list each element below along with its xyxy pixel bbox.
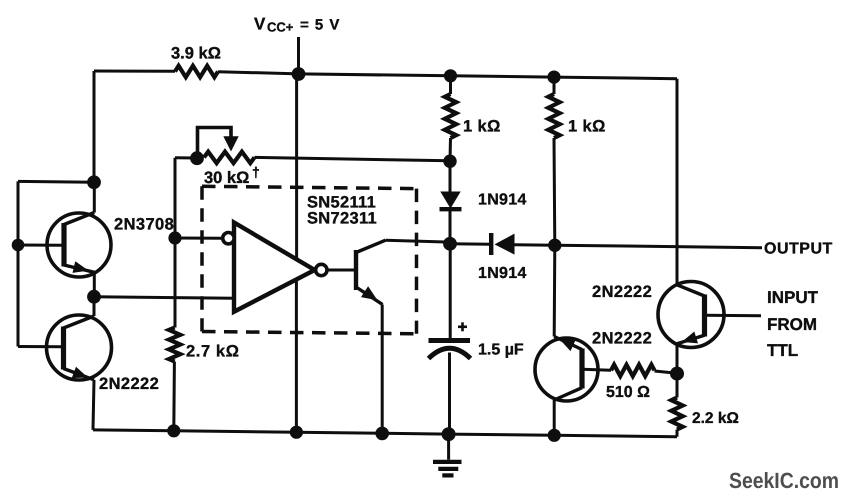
node Q5 emitter ground dot [375, 427, 389, 441]
wire inverting input line [175, 237, 223, 240]
svg-text:†: † [252, 164, 260, 180]
wire top rail segment C [299, 74, 451, 76]
svg-text:3.9 kΩ: 3.9 kΩ [171, 45, 221, 63]
wire Q5 emitter vertical [381, 305, 384, 434]
capacitor C1 curved plate [429, 348, 471, 358]
transistor Q2 emitter diagonal [64, 369, 95, 380]
wire ground rail seg C [296, 432, 382, 433]
node R3 ground dot [167, 424, 180, 437]
ground symbol bar 1 [433, 460, 462, 464]
wire R6 to junction [655, 371, 678, 373]
wire 2.2k bottom lead [676, 430, 679, 437]
transistor Q1 emitter arrow [73, 261, 89, 273]
transistor Q2 emitter arrow [72, 367, 88, 378]
node bracket base dot [12, 239, 25, 252]
wire Q1 emitter vertical [93, 272, 96, 297]
transistor Q2 collector diagonal [64, 316, 95, 328]
transistor Q3 emitter diagonal [554, 337, 582, 350]
ground symbol bar 2 [438, 467, 458, 471]
svg-text:FROM: FROM [767, 315, 817, 334]
transistor Q2 base bar [61, 327, 66, 370]
transistor Q4 base bar [702, 295, 707, 337]
resistor R3 2.7 kOhm [169, 328, 180, 362]
wire divider drop to R3 [174, 238, 177, 328]
transistor Q4 collector diagonal [677, 285, 705, 296]
svg-text:510 Ω: 510 Ω [606, 384, 650, 401]
dashed IC box bottom edge [202, 332, 417, 334]
wire R4 to diode node [449, 138, 453, 161]
wire left bracket vertical [17, 181, 20, 346]
wire Q3 base line [582, 368, 611, 372]
wire ground pin vertical [295, 280, 298, 433]
transistor Q5 emitter arrow [361, 286, 378, 300]
ground symbol bar 3 [442, 473, 453, 477]
svg-text:1N914: 1N914 [478, 265, 527, 282]
resistor R5 1 kOhm [548, 94, 559, 138]
node top rail dot at 1k right [547, 71, 560, 84]
wire R5 down to output line [553, 138, 557, 245]
op-amp U1 output bubble [316, 264, 327, 275]
diode D1 1N914 cathode bar [440, 207, 462, 211]
wire Q4 base line [705, 314, 762, 318]
wire 1k right top lead [553, 77, 556, 94]
wire output line right segment [555, 245, 762, 248]
wire Q4 emitter vertical [676, 344, 679, 374]
wire ground rail seg B [174, 431, 297, 432]
capacitor C1 top plate [429, 338, 471, 343]
wire ground rail seg A [93, 428, 174, 432]
wire output line middle segment [515, 243, 555, 247]
wire Q2 emitter vertical [93, 380, 94, 430]
transistor Q5 emitter diagonal [356, 287, 383, 305]
wire pot left horizontal [175, 156, 197, 159]
potentiometer R2 30 kOhm body [204, 152, 255, 163]
wire ground rail seg E [449, 434, 555, 435]
svg-text:CC+: CC+ [267, 20, 294, 35]
wire node A horizontal [18, 180, 94, 184]
wire top rail segment A [94, 70, 175, 73]
svg-text:V: V [254, 15, 266, 34]
svg-text:INPUT: INPUT [767, 288, 819, 307]
resistor R7 2.2 kOhm [671, 398, 682, 430]
svg-text:2N2222: 2N2222 [99, 375, 159, 393]
node A dot [87, 175, 101, 189]
wire Q2 collector vertical [93, 297, 96, 317]
wire 1k left top lead [449, 76, 452, 94]
node Q3 collector ground dot [548, 429, 561, 442]
wire Q1 collector vertical [93, 183, 96, 213]
svg-text:SeekIC.com: SeekIC.com [729, 468, 839, 493]
svg-text:2N2222: 2N2222 [592, 283, 652, 301]
node top rail dot at 1k left [444, 69, 457, 82]
svg-text:30 kΩ: 30 kΩ [204, 169, 249, 187]
node ground symbol dot [442, 427, 456, 441]
wire top rail segment B [218, 72, 299, 74]
potentiometer wiper loop [198, 128, 232, 159]
transistor Q3 2N2222 circle [535, 338, 598, 401]
capacitor C1 plus sign [458, 325, 467, 328]
diode D2 1N914 cathode bar [489, 233, 493, 255]
transistor Q1 2N3708 circle [47, 213, 111, 277]
transistor Q1 collector diagonal [64, 213, 94, 225]
transistor Q3 collector diagonal [554, 388, 582, 400]
op-amp U1 input bubble [223, 233, 234, 244]
node output line right dot [548, 239, 561, 252]
svg-text:1.5 µF: 1.5 µF [478, 342, 524, 359]
wire U1 output to Q5 base [327, 269, 356, 272]
svg-text:1N914: 1N914 [478, 192, 527, 209]
node Q1-Q2 junction dot [87, 290, 101, 304]
svg-text:TTL: TTL [767, 341, 798, 360]
dashed IC box top edge [202, 186, 417, 188]
wire top rail segment D [451, 76, 554, 77]
node diode junction dot [443, 155, 456, 168]
wire top rail segment E [554, 77, 677, 79]
wire 2.2k top lead [676, 374, 679, 398]
resistor R1 3.9 kOhm [175, 66, 218, 77]
wire diode D1 top lead [449, 161, 452, 192]
wire Q1 base line [18, 244, 64, 247]
transistor Q3 emitter arrow [560, 339, 576, 351]
transistor Q1 emitter diagonal [64, 265, 94, 272]
dashed IC box left edge [200, 186, 204, 331]
dashed IC box right edge [415, 189, 419, 334]
wire top-left corner vertical [93, 71, 96, 183]
svg-text:SN72311: SN72311 [307, 210, 377, 228]
wire pot drop to input node [174, 158, 177, 238]
wire ground rail seg F [554, 435, 677, 436]
node inverting input dot [168, 231, 181, 244]
transistor Q4 emitter arrow [682, 332, 698, 344]
wire diode D1 bottom lead [449, 211, 452, 244]
svg-text:2N3708: 2N3708 [114, 216, 174, 234]
transistor Q4 2N2222 circle [658, 282, 724, 348]
transistor Q5 collector diagonal [356, 240, 386, 252]
node VCC junction dot [292, 67, 306, 81]
svg-text:2.2 kΩ: 2.2 kΩ [692, 410, 739, 427]
node Q4 emitter junction dot [670, 367, 684, 381]
resistor R4 1 kOhm [445, 94, 456, 138]
svg-text:2N2222: 2N2222 [592, 330, 652, 348]
wire V+ pin vertical [295, 74, 298, 259]
wire right rail drop (Q4 collector) [676, 79, 679, 285]
wire noninverting input line [94, 297, 234, 299]
diode D2 1N914 triangle [495, 234, 515, 255]
potentiometer wiper arrow [223, 136, 238, 151]
wire pot right to diode node [255, 157, 451, 160]
svg-text:OUTPUT: OUTPUT [764, 241, 833, 258]
transistor Q4 emitter diagonal [677, 335, 705, 344]
node output node dot [443, 237, 457, 251]
node U1 ground pin dot [290, 426, 303, 439]
resistor R6 510 Ohm [611, 365, 655, 376]
wire Q5 collector horizontal [386, 240, 451, 242]
wire Q3 collector vertical [553, 400, 556, 435]
transistor Q3 base bar [579, 349, 584, 389]
svg-text:2.7 kΩ: 2.7 kΩ [186, 343, 240, 361]
wire Q3 emitter vertical [553, 245, 557, 336]
wire capacitor bottom lead [448, 353, 451, 435]
svg-text:1 kΩ: 1 kΩ [463, 118, 501, 136]
wire VCC stub [297, 37, 300, 75]
wire R3 to ground rail [172, 362, 176, 431]
ground symbol stub [447, 434, 450, 460]
transistor Q2 2N2222 circle [47, 315, 112, 380]
svg-text:= 5 V: = 5 V [300, 17, 340, 34]
wire ground rail seg D [382, 432, 448, 436]
op-amp U1 triangle [234, 223, 315, 312]
diode D1 1N914 triangle [440, 192, 460, 209]
svg-text:1 kΩ: 1 kΩ [568, 118, 606, 136]
wire Q2 base line [18, 345, 64, 348]
transistor Q5 base bar [354, 250, 358, 290]
transistor Q1 base bar [61, 223, 66, 267]
node pot left terminal dot [190, 151, 204, 165]
wire capacitor top lead [449, 244, 452, 339]
wire output line left segment [450, 242, 491, 246]
